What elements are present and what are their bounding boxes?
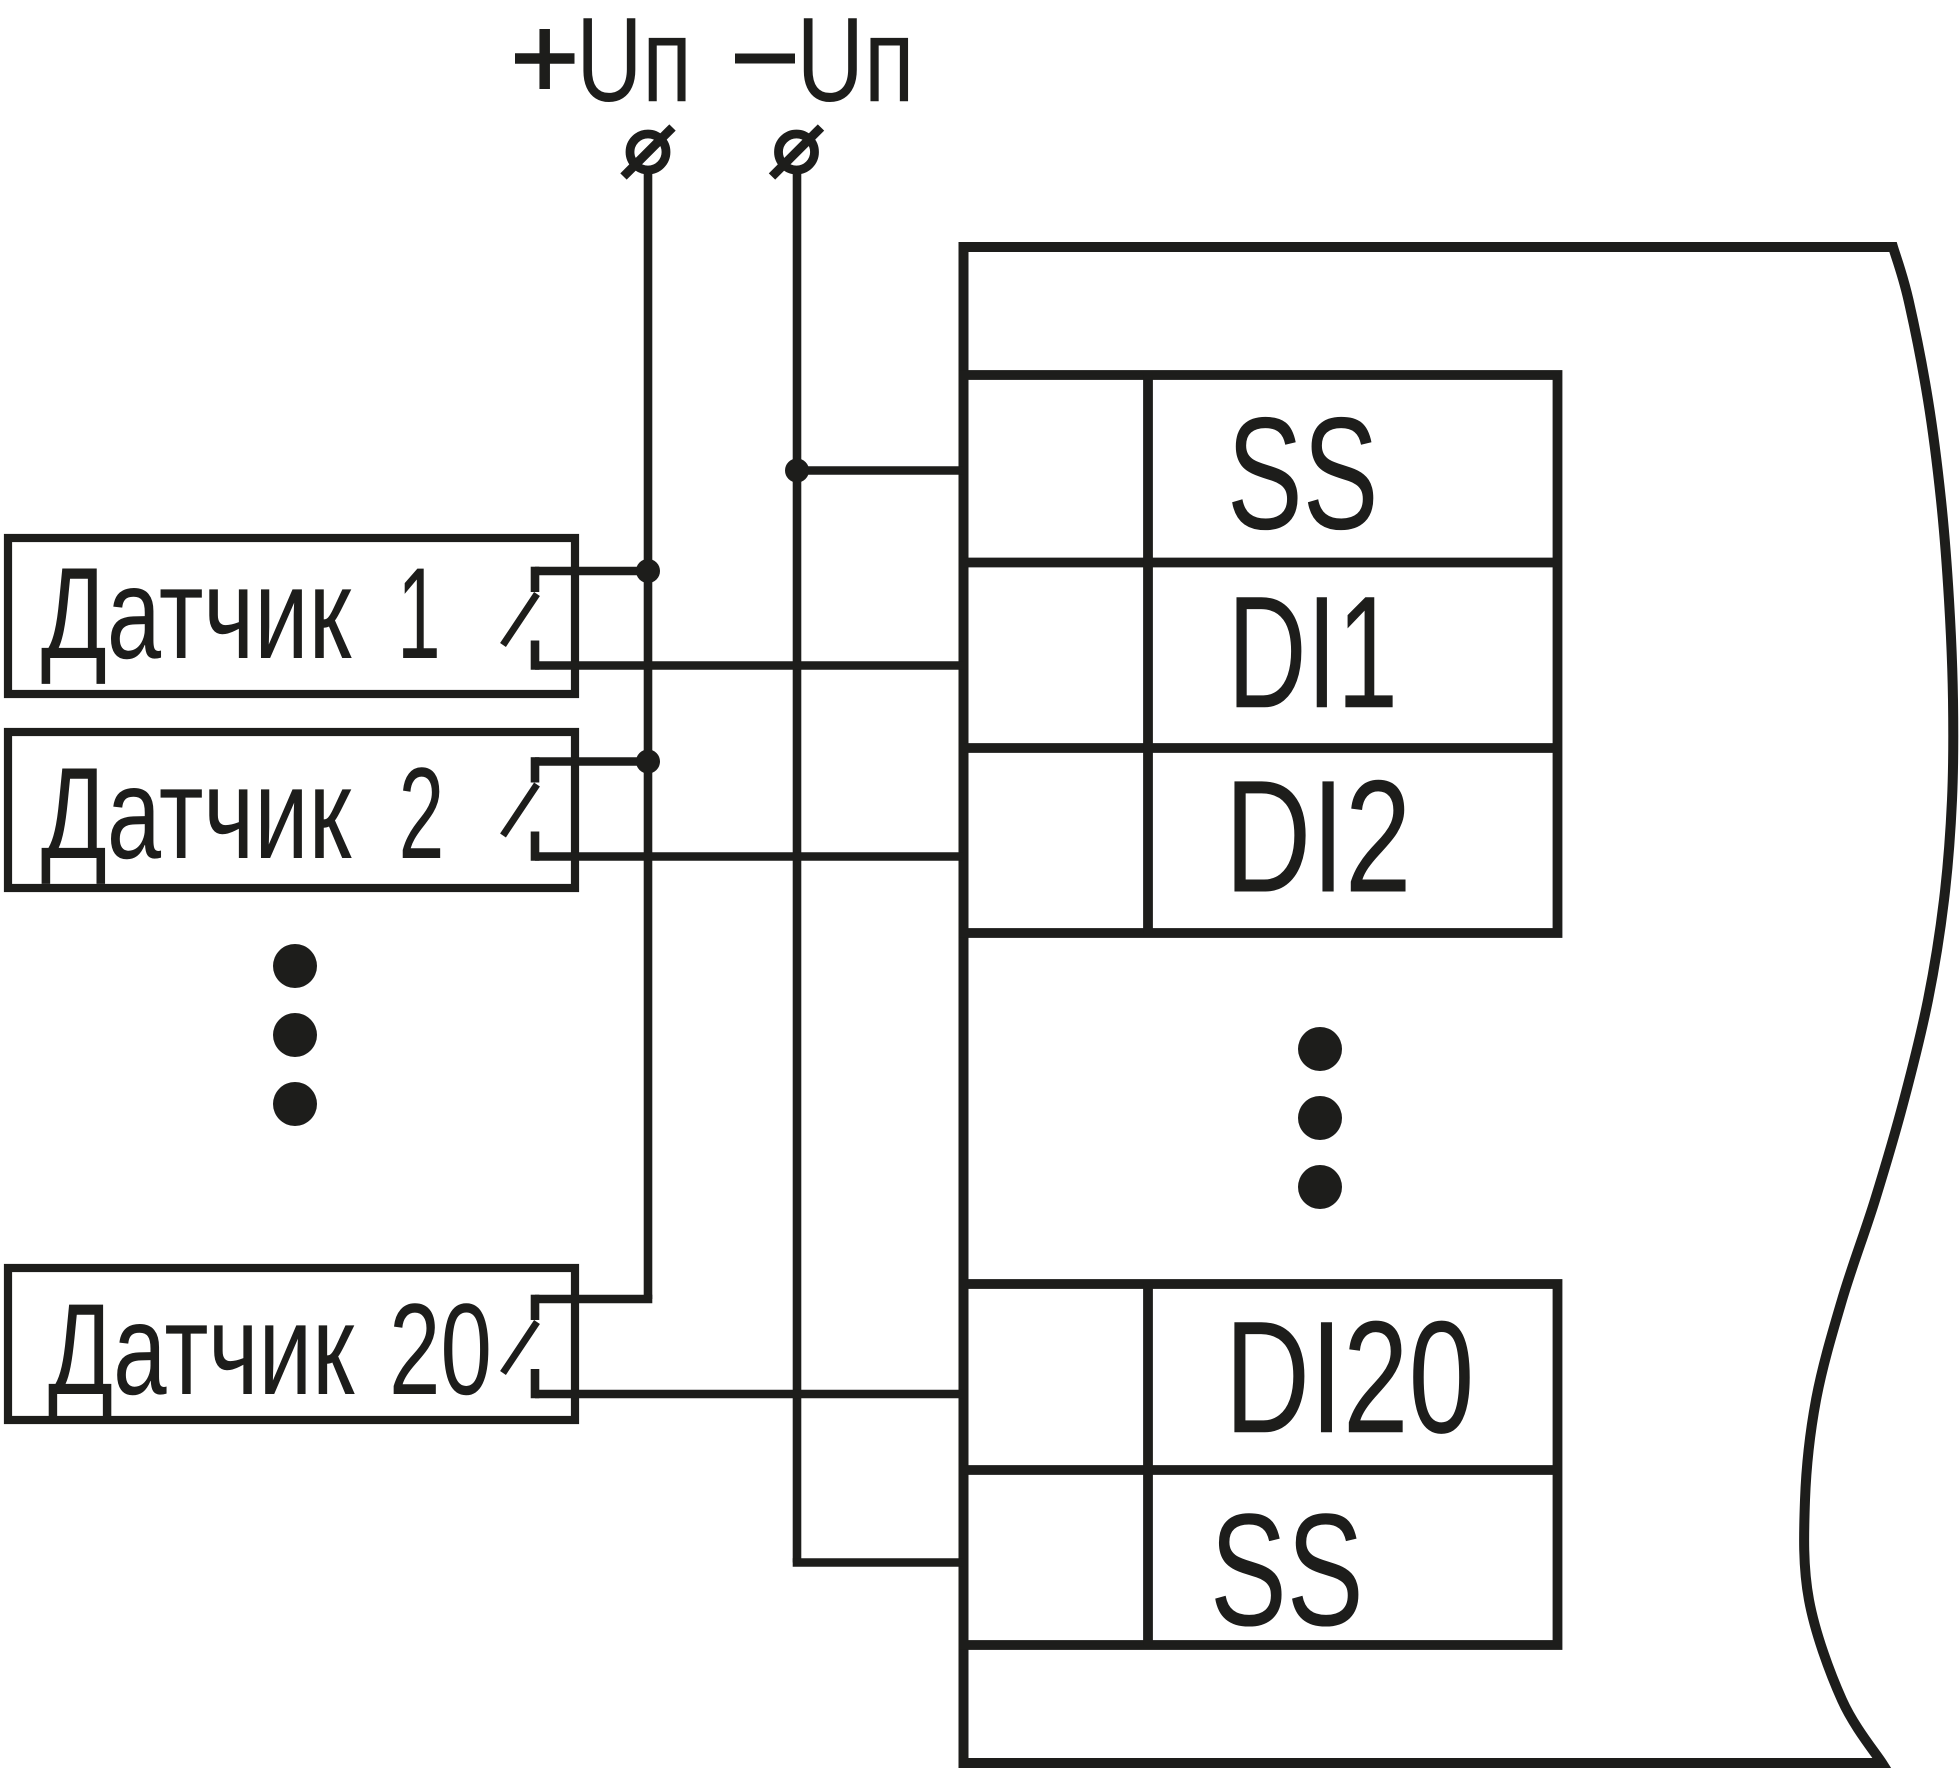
svg-text:1: 1 (397, 540, 440, 686)
svg-text:2: 2 (399, 742, 445, 887)
svg-text:SS: SS (1227, 384, 1379, 563)
svg-text:Uп: Uп (797, 0, 915, 127)
svg-text:DI2: DI2 (1225, 747, 1412, 926)
svg-text:Датчик: Датчик (41, 541, 352, 686)
svg-text:Датчик: Датчик (41, 741, 352, 886)
svg-text:Uп: Uп (576, 0, 692, 127)
svg-text:Датчик: Датчик (48, 1278, 355, 1422)
svg-text:20: 20 (389, 1276, 492, 1421)
svg-text:DI1: DI1 (1228, 564, 1398, 743)
svg-text:DI20: DI20 (1225, 1288, 1475, 1467)
svg-text:SS: SS (1210, 1480, 1364, 1659)
